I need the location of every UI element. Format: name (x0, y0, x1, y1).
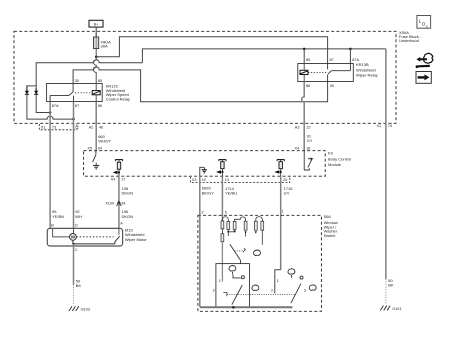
svg-text:YE/BU: YE/BU (225, 190, 237, 195)
washer switch S66 box (198, 215, 322, 311)
label X4 17 (111, 178, 126, 182)
fuse F8UA 30A (94, 31, 112, 57)
contact right group (300, 276, 303, 279)
svg-text:X3: X3 (192, 178, 197, 182)
svg-text:A: A (120, 222, 123, 226)
connector X3 bracket (191, 177, 290, 183)
relay KR13B pin labels (306, 58, 360, 88)
svg-text:WH/VT: WH/VT (98, 139, 111, 144)
K9 label (328, 151, 351, 168)
svg-text:Wiper Motor: Wiper Motor (125, 237, 147, 242)
relay KR13B box (298, 64, 354, 82)
svg-text:86: 86 (98, 104, 102, 108)
label 92 WH (75, 209, 82, 219)
svg-text:87A: 87A (52, 104, 59, 108)
label 1714 YE/BU (225, 186, 237, 196)
svg-text:86: 86 (306, 84, 310, 88)
svg-text:13: 13 (225, 178, 229, 182)
ground G103 (69, 306, 90, 311)
X50A label (399, 30, 422, 43)
svg-text:87: 87 (330, 58, 334, 62)
wire W3 KR12C 30 to KR13B 30 (73, 67, 328, 102)
node KR13B 87A tap (349, 48, 352, 51)
resistor R5 (244, 221, 247, 230)
wire W2 ground bus to G101 (142, 49, 386, 63)
svg-text:D: D (75, 223, 78, 227)
label 91 GY (307, 134, 313, 144)
wiper glyph 2 (229, 266, 236, 272)
wiper glyph 1 (254, 250, 261, 256)
wire D1 bottom to 87 wire (hop over 87A) (27, 94, 74, 119)
sub-box (216, 264, 250, 308)
BCM driver (pin 13) (216, 160, 226, 177)
wire loop R6 to R7 (256, 217, 262, 222)
relay KR12C coil (92, 91, 100, 95)
svg-text:KR13B: KR13B (356, 62, 369, 67)
BCM driver (pin 20) (274, 160, 284, 177)
relay KR12C pin labels (52, 79, 102, 108)
wire diode bus (36, 60, 142, 91)
label 196 DKGN (lower) (122, 209, 134, 219)
label 1716 GY (284, 186, 294, 196)
node fuse output junction (95, 56, 98, 59)
resistor R2 (221, 234, 224, 242)
svg-text:M: M (71, 235, 75, 240)
svg-text:B+: B+ (94, 23, 99, 27)
arm left group (232, 285, 242, 305)
svg-text:1: 1 (277, 279, 279, 283)
svg-text:C: C (75, 248, 78, 252)
B+ (89, 20, 103, 27)
S66 label (324, 214, 338, 238)
labels 1 2 3 right group (271, 279, 306, 292)
resistor R3 (227, 221, 230, 229)
label 50 BK (right) (388, 278, 394, 288)
wire D2 bottom to 87A wire (36, 94, 50, 112)
relay KR13B label (356, 62, 378, 78)
svg-text:04: 04 (98, 146, 102, 150)
wiper glyph 3 (288, 269, 295, 274)
svg-text:2: 2 (213, 288, 215, 292)
motor internals (53, 228, 120, 244)
svg-text:S66: S66 (324, 214, 332, 219)
relay KR13B 85-86 leads (303, 64, 305, 82)
svg-text:20: 20 (283, 178, 287, 182)
node 87 junction (72, 118, 75, 121)
label 6009 BK/GY (202, 186, 215, 196)
node KR13B 85 tap (303, 48, 306, 51)
motor M15 box (47, 228, 122, 246)
svg-text:BK/GY: BK/GY (202, 190, 215, 195)
svg-text:WH: WH (75, 214, 82, 219)
ground G101 (380, 306, 401, 311)
svg-text:Underhood: Underhood (399, 38, 419, 43)
svg-text:87: 87 (75, 104, 79, 108)
switch arm upper left (230, 244, 241, 263)
svg-text:2: 2 (271, 288, 273, 292)
relay KR12C internals (50, 84, 92, 102)
resistor R1 (221, 221, 224, 229)
svg-text:85: 85 (98, 79, 102, 83)
label X1 74 (377, 124, 393, 128)
svg-text:X4: X4 (295, 146, 300, 150)
resistor R4 (233, 221, 236, 229)
BCM internal ground (left) (93, 163, 99, 169)
svg-text:22: 22 (306, 125, 310, 129)
wire motor C to G103 (50 BK) (73, 244, 75, 285)
wire KR13B 86 to BCM (91 GY) (302, 82, 305, 151)
contact left group (233, 275, 241, 278)
mech link lower (223, 293, 227, 297)
svg-text:5: 5 (225, 211, 227, 215)
svg-text:X5: X5 (87, 146, 92, 150)
relay KR12C label (106, 83, 130, 101)
BCM internal ground (pin 10) (200, 167, 207, 176)
BCM switch (pin 16) (304, 151, 312, 170)
svg-text:DKGN: DKGN (122, 190, 134, 195)
wire switch pin1 internal (275, 270, 281, 294)
node 87A junction (49, 111, 52, 114)
switch pin labels 2 5 1 (202, 210, 284, 215)
svg-text:87A: 87A (352, 58, 359, 62)
wiper glyph 4 (252, 285, 259, 291)
LOC icon (417, 16, 431, 30)
label X4 16 (295, 146, 311, 150)
wire BCM 10 to switch 2 (6009 BK/GY) (199, 183, 201, 216)
svg-text:72: 72 (75, 125, 79, 129)
resistor R6 (254, 221, 257, 230)
svg-text:16: 16 (306, 146, 310, 150)
relay KR12C box (47, 84, 103, 102)
svg-text:C: C (426, 25, 429, 29)
wire BCM 17 to motor A (196 DKGN) (118, 176, 120, 228)
connector X100 (117, 201, 122, 206)
svg-text:3: 3 (304, 288, 306, 292)
svg-text:G101: G101 (392, 307, 401, 311)
svg-text:Control Relay: Control Relay (106, 97, 130, 102)
label A2 22 (295, 125, 311, 129)
wiper glyph 5 (309, 285, 316, 291)
svg-text:30: 30 (75, 79, 79, 83)
svg-text:X4: X4 (111, 178, 116, 182)
node motor C junction (72, 243, 74, 245)
relay KR13B internals (308, 64, 350, 82)
svg-text:1: 1 (219, 279, 221, 283)
wire loop wire5 to R3 (222, 217, 228, 222)
node R3 junction (227, 231, 229, 233)
wire BCM 20 to switch 1 (1716 GY) (280, 176, 282, 270)
fuse block X50A box (14, 31, 396, 123)
svg-text:Wiper Relay: Wiper Relay (356, 73, 378, 78)
BCM K9 box (84, 151, 326, 177)
svg-text:74: 74 (388, 124, 392, 128)
connector X1 bracket (39, 124, 77, 130)
svg-text:34: 34 (121, 201, 125, 205)
wire KR13B 85 drop (303, 49, 305, 64)
svg-text:X1: X1 (41, 125, 46, 129)
relay KR12C 85 lead (94, 57, 97, 91)
svg-text:K9: K9 (328, 151, 334, 156)
wire W1 fuse to KR13B pin 87 (96, 37, 327, 64)
svg-text:85: 85 (306, 58, 310, 62)
svg-text:X100: X100 (105, 201, 114, 205)
svg-text:YE/BN: YE/BN (52, 214, 64, 219)
switch resistor ladder (221, 217, 264, 282)
motor pin labels B D A (51, 222, 123, 228)
svg-text:BK: BK (388, 283, 394, 288)
page arrow icon top (416, 53, 433, 68)
wire R2 tail (221, 242, 223, 282)
wire KR12C 87A to motor B (49, 102, 51, 229)
svg-text:GY: GY (284, 191, 290, 196)
svg-text:A2: A2 (89, 125, 94, 129)
node bus junction (232, 306, 235, 309)
svg-text:Module: Module (328, 162, 342, 167)
label A2 46 (89, 125, 104, 129)
wire B+ to fuse (95, 27, 97, 37)
switch common bus (200, 306, 293, 308)
relay KR13B coil (300, 70, 308, 74)
svg-text:17: 17 (121, 178, 125, 182)
label 196 DKGN (upper) (122, 186, 134, 196)
wire KR12C 86 to BCM X5-04 (660 WH/VT) (95, 102, 97, 151)
svg-text:Body Control: Body Control (328, 156, 351, 161)
svg-text:73: 73 (52, 125, 56, 129)
label X3 10 13 20 (192, 178, 287, 182)
wire BCM 13 to switch 5 (1714 YE/BU) (221, 176, 223, 221)
svg-text:1: 1 (282, 210, 284, 214)
svg-text:46: 46 (99, 125, 103, 129)
wire R4 top to R5 (235, 217, 246, 222)
wire switch pin2 internal drop (199, 215, 201, 307)
label 50 BK (left) (76, 278, 82, 288)
BCM driver (motor A, pin 17) (113, 160, 123, 177)
label X5 04 (87, 146, 102, 150)
wire KR12C 87 to motor D (73, 102, 75, 229)
motor label (125, 227, 147, 242)
label 660 WH/VT (98, 134, 111, 144)
labels 1 2 left group (213, 279, 221, 292)
svg-text:GY: GY (307, 138, 313, 143)
svg-text:2: 2 (202, 211, 204, 215)
wire left diode top link (27, 86, 36, 91)
relay KR12C 86 lead (95, 95, 97, 102)
svg-text:30A: 30A (101, 44, 108, 49)
mech link upper (235, 250, 244, 252)
wire KR13B 87A riser (349, 49, 351, 64)
diode D2 (34, 88, 38, 95)
label 95 YE/BN (52, 209, 64, 219)
diode D1 (25, 86, 29, 95)
svg-text:A2: A2 (295, 125, 300, 129)
resistor R7 (261, 221, 264, 230)
wire G101 (50 BK) (385, 49, 387, 279)
svg-text:30: 30 (330, 84, 334, 88)
svg-text:10: 10 (202, 178, 206, 182)
svg-text:Switch: Switch (324, 233, 336, 238)
arm right group (291, 284, 301, 304)
svg-text:BK: BK (76, 283, 82, 288)
svg-text:DKGN: DKGN (122, 214, 134, 219)
BCM switch to ground (pin 04) (93, 151, 96, 162)
page arrow icon boxed (416, 72, 431, 84)
svg-text:X1: X1 (377, 124, 382, 128)
label X1 73 72 (41, 125, 79, 129)
svg-text:G103: G103 (81, 308, 90, 312)
